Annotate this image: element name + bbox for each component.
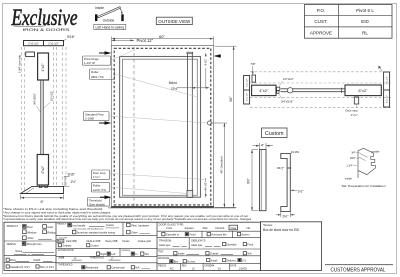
svg-text:REV: REV (182, 265, 187, 267)
svg-text:Screen: Screen (242, 233, 251, 236)
callout box: Pivot Hinge 1-1/2 (83, 56, 111, 65)
custom: 4 inch dim (253, 143, 274, 150)
svg-text:PACKAGE: PACKAGE (158, 257, 169, 260)
dimension pivot 12 inch (112, 38, 154, 43)
svg-text:3/4"x3/16": 3/4"x3/16" (281, 100, 293, 104)
svg-text:Door stop: Door stop (346, 109, 359, 113)
leader pivot hinge to pivot (111, 50, 134, 60)
svg-text:Other: Other (27, 236, 34, 240)
svg-text:2"x1-1/2": 2"x1-1/2" (386, 76, 388, 84)
svg-text:9/16": 9/16" (67, 35, 76, 39)
svg-text:Box de stock door for EID: Box de stock door for EID (263, 228, 300, 232)
door view: glass frame inner (122, 59, 197, 195)
svg-text:Clear: Clear (231, 227, 237, 230)
door view: pivot dashed line (133, 47, 135, 206)
svg-text:Slim (1 1/4"): Slim (1 1/4") (40, 265, 54, 269)
form: standard slim row (6, 265, 54, 269)
svg-text::: : (213, 244, 214, 247)
door view: backset label (169, 81, 179, 91)
svg-text:PRODUCT: PRODUCT (7, 226, 19, 228)
svg-text:Hurricane film: Hurricane film (211, 233, 226, 236)
door view: lock stile bar (187, 52, 193, 197)
form: COLOR section (57, 238, 151, 248)
svg-text:Commercial: Commercial (111, 267, 125, 270)
svg-text:ORDER#: ORDER# (205, 265, 215, 267)
svg-text:Antique gold: Antique gold (138, 240, 151, 243)
svg-text:Dark ORB: Dark ORB (66, 240, 77, 243)
svg-text:Custom: Custom (91, 245, 99, 248)
form: PACKAGE row (158, 257, 247, 263)
svg-text:outside: outside (371, 150, 380, 154)
form col1 dividers (4, 241, 56, 262)
svg-text:*Any change in your signed and: *Any change in your signed and send to (… (3, 211, 111, 214)
svg-text:with relevador and deadbolt pr: with relevador and deadbolt prep (73, 227, 104, 230)
svg-text:Right: Right (101, 253, 107, 256)
svg-text:HANDLE:: HANDLE: (57, 223, 67, 226)
svg-text:3/4"x3/16": 3/4"x3/16" (32, 93, 36, 105)
form: DOOR GLASS TYPE header and types (159, 222, 251, 230)
svg-text:ACTIVE DOOR: ACTIVE DOOR (58, 249, 74, 252)
dimension 66 inch right (215, 46, 237, 207)
svg-text:American standard double borin: American standard double boring (77, 230, 116, 234)
svg-text:4": 4" (261, 144, 265, 148)
custom: flat bar profile (260, 150, 267, 211)
plan view: label 1/2x1/2 (279, 77, 294, 87)
svg-text:SIDELIGHTS:: SIDELIGHTS: (191, 240, 206, 243)
door view: right top arrow (214, 54, 221, 58)
svg-text:Door: Door (27, 225, 33, 229)
fine print line 3 (3, 215, 248, 218)
plan view: hinge side lock bits (277, 87, 280, 93)
svg-text:Heavy ORB: Heavy ORB (105, 241, 118, 243)
svg-text:Pivot 6 L: Pivot 6 L (356, 8, 374, 13)
svg-text:3½": 3½" (283, 214, 290, 218)
svg-text:NA: NA (247, 227, 251, 230)
plan view: door stop rect (252, 75, 256, 82)
threshold isometric sketch (358, 148, 375, 178)
swing diagram: swing arrow (120, 9, 123, 15)
notes red text (263, 228, 300, 232)
svg-text:Gate: Gate (47, 225, 53, 229)
svg-text:2"x1-1/2": 2"x1-1/2" (386, 95, 388, 103)
svg-text:2": 2" (281, 167, 284, 171)
svg-text:KGWt: KGWt (33, 258, 40, 262)
door view: backset dimension (177, 87, 209, 89)
left jamb section: door stop small rect (26, 52, 35, 57)
svg-text:Aquatex: Aquatex (185, 227, 195, 230)
threshold iso: outside label (371, 150, 380, 154)
custom: #4-4SS label (290, 151, 299, 155)
svg-text:1½": 1½" (71, 180, 77, 184)
svg-text:Price: Price (10, 258, 16, 262)
svg-text:Medium ORB: Medium ORB (87, 241, 101, 243)
svg-text:EID: EID (361, 19, 369, 24)
svg-text:1-3/4" door slab: 1-3/4" door slab (17, 54, 21, 73)
form: JAMB row (58, 257, 120, 261)
left jamb section: tube feet (39, 185, 47, 188)
CUSTOMERS APPROVAL signature line (325, 265, 393, 274)
threshold iso: dim labels (346, 152, 359, 168)
svg-text:Outside: Outside (103, 18, 115, 22)
logo IRON AND DOORS (22, 28, 70, 32)
order form outer box (4, 222, 260, 270)
svg-text:*Exclusive Iron Doors stands b: *Exclusive Iron Doors stands behind the … (3, 215, 248, 218)
svg-text:*Size shown in FS in unit size: *Size shown in FS in unit size including… (3, 208, 104, 211)
left jamb section: rotated label door slab 1-3/4 (17, 54, 21, 73)
swing diagram: Left Hand In-swing box (94, 24, 126, 29)
svg-text:Roller: Roller (93, 183, 101, 187)
leader roller latch to stile base (110, 187, 188, 194)
svg-text:3/4": 3/4" (351, 152, 355, 155)
svg-text:6"x2": 6"x2" (358, 88, 368, 93)
svg-text:DESIGN:: DESIGN: (7, 244, 17, 246)
svg-text:Outside: Outside (210, 253, 219, 256)
svg-text:Operable or: Operable or (166, 233, 179, 236)
left jamb section: wall dashed lines left (22, 47, 25, 193)
svg-text:1"x¾": 1"x¾" (351, 113, 358, 117)
svg-text:No box: No box (187, 261, 196, 264)
left jamb section: 9/16 and 1-1/2 dims at threshold (64, 173, 76, 187)
fine print line 4 (3, 218, 252, 221)
svg-text:8-1/2": 8-1/2" (204, 59, 208, 66)
svg-text:JAMB: JAMB (58, 257, 65, 260)
title block table (305, 5, 393, 39)
custom: C channel profile (281, 153, 291, 211)
svg-text:OUTSIDE VIEW: OUTSIDE VIEW (158, 19, 190, 24)
form: glass options row (162, 233, 250, 237)
svg-text:IRON & DOORS: IRON & DOORS (22, 28, 70, 32)
door view: slab heavy dashed rect (114, 48, 211, 205)
svg-text:9/16": 9/16" (68, 173, 75, 177)
svg-text:Install: Install (211, 259, 218, 262)
svg-text:*Notes:: *Notes: (263, 223, 273, 227)
custom: 1-1/2 dim (291, 190, 304, 194)
svg-text:TRANSOM:: TRANSOM: (159, 240, 172, 243)
plan view: 6x2 jamb box (345, 85, 381, 96)
left jamb section: rotated label 3/16x3/4 (32, 93, 40, 112)
svg-text:2-1/8Ø: 2-1/8Ø (85, 117, 95, 121)
leader standard prep to circle (109, 116, 207, 123)
dimension 48 deadbolt (212, 123, 228, 207)
custom: 2 inch dim (276, 167, 291, 171)
svg-text:49-1/2": 49-1/2" (204, 182, 208, 190)
svg-text:8½": 8½" (246, 178, 250, 184)
dimension 60 inch top (112, 34, 214, 45)
custom: 3-1/2 dim (276, 212, 295, 218)
svg-text:1"x¾": 1"x¾" (93, 175, 101, 179)
svg-text:Frost: Frost (166, 227, 172, 230)
svg-text:Window: Window (27, 230, 36, 234)
form: HANDLE section (57, 223, 150, 235)
svg-text:Plexi, hardware: Plexi, hardware (131, 223, 149, 227)
hinge arrow middle (99, 121, 112, 125)
callout box: Door stop 1x3/4 (91, 170, 109, 179)
door view: floor line (108, 207, 236, 209)
callout box: Standard Prep 2-1/8 (84, 112, 110, 121)
left jamb section: 9/16 top label (63, 35, 76, 41)
svg-text:Black: Black (58, 241, 64, 243)
svg-text:Oxidants: Oxidants (62, 245, 72, 248)
form: DESIGN section (7, 242, 54, 256)
svg-text:66": 66" (229, 96, 233, 102)
svg-text:2801 (T4): 2801 (T4) (91, 75, 104, 79)
svg-text:Std. Preparation for Installat: Std. Preparation for Installation (342, 184, 386, 188)
svg-text:Latch (T4): Latch (T4) (93, 188, 106, 192)
logo Exclusive script (11, 5, 78, 30)
svg-text:Custom: Custom (265, 131, 284, 137)
svg-text:CUSTOMERS APPROVAL: CUSTOMERS APPROVAL (331, 267, 386, 273)
svg-text:Delivery: Delivery (227, 259, 237, 262)
swing diagram: left jamb post (95, 14, 97, 21)
plan view: wall dashed lines (250, 72, 392, 108)
form: SIDELIGHTS cell (191, 240, 254, 247)
svg-text:APPROVE: APPROVE (310, 31, 332, 36)
svg-text:DOOR GLASS TYPE:: DOOR GLASS TYPE: (159, 222, 185, 226)
svg-text:Fixed: Fixed (247, 243, 254, 246)
plan view: 4x2 jamb box (252, 85, 276, 95)
svg-text:Glass type: Glass type (159, 244, 171, 247)
custom: rotated 8-1/2 dim (246, 150, 258, 211)
svg-text:4"x2": 4"x2" (41, 63, 45, 72)
svg-text:Custom: Custom (106, 224, 114, 227)
left jamb section: head jamb double box 2x1-1/2 (24, 41, 64, 46)
svg-text:Left Hand In-swing: Left Hand In-swing (96, 25, 125, 29)
svg-text:LTL: LTL (242, 259, 247, 262)
svg-text:P.O.: P.O. (317, 8, 326, 13)
svg-text:1½": 1½" (298, 190, 305, 194)
plan view: arrow to head jamb (379, 66, 383, 72)
svg-text:7/8": 7/8" (250, 62, 255, 66)
door view: deadbolt circle (207, 121, 211, 125)
svg-text:Bckst.: Bckst. (169, 81, 178, 85)
notes box (260, 222, 321, 271)
svg-text:1/2"x1/2": 1/2"x1/2" (283, 77, 294, 81)
form: price row (6, 258, 52, 262)
svg-text:Railing: Railing (47, 230, 55, 234)
svg-text:THRESHOLD: THRESHOLD (90, 258, 105, 260)
form: THRESHOLD row (58, 264, 150, 269)
threshold arrow bottom (100, 195, 112, 199)
door view: glass frame outer (120, 57, 201, 198)
svg-text:Left: Left (111, 253, 115, 256)
fine print line 2 (3, 211, 111, 214)
svg-text:RL: RL (362, 31, 368, 36)
svg-text:10: 10 (192, 267, 195, 270)
door view: stile top mini dim 8-1/2 (204, 53, 208, 88)
svg-text:1/2"x1/2": 1/2"x1/2" (49, 91, 53, 101)
svg-text:KG: KG (170, 267, 174, 270)
svg-text:Residential: Residential (86, 267, 99, 270)
svg-text:1-1/2" Ø: 1-1/2" Ø (84, 61, 95, 65)
svg-text:TINT:: TINT: (158, 251, 164, 253)
svg-text:9/16": 9/16" (350, 157, 356, 160)
svg-text:61: 61 (218, 267, 221, 270)
svg-text:4"x2": 4"x2" (41, 165, 45, 174)
svg-text:Inside: Inside (178, 253, 185, 256)
svg-text::: : (180, 244, 181, 247)
left jamb section: 6 inch dimension (21, 195, 64, 205)
plan view: left head jamb rotated box (244, 76, 250, 105)
svg-text:1 1/4": 1 1/4" (346, 165, 352, 168)
leader door stop to door bottom (110, 174, 206, 180)
callout box: Roller latch T4 (91, 182, 109, 192)
svg-text:(SWING): (SWING) (121, 250, 130, 252)
form: TRANSOM cell (159, 240, 187, 247)
svg-text:2"x1-1/2": 2"x1-1/2" (48, 41, 59, 45)
form: TINT row (158, 251, 252, 255)
svg-text:Pivot 12": Pivot 12" (137, 38, 154, 43)
svg-text:4"x2": 4"x2" (259, 88, 269, 93)
OUTSIDE VIEW label box (156, 17, 192, 24)
plan view: label 3/4x3/16 (279, 94, 293, 104)
left jamb section: upper 4x2 tube (38, 53, 49, 80)
svg-text:Name: Name (15, 249, 22, 253)
svg-text:N/A: N/A (247, 253, 252, 256)
swing diagram: Outside label (103, 18, 115, 22)
svg-text:*representatives to verify you: *representatives to verify your situatio… (3, 218, 252, 221)
left jamb section: door slab section lines (41, 80, 43, 155)
door view: outer frame (111, 46, 213, 208)
form: weight date row (158, 264, 247, 270)
svg-text:(See details): (See details) (89, 202, 105, 206)
fine print line 1 (3, 208, 104, 211)
svg-text:2"x1-1/2": 2"x1-1/2" (28, 41, 39, 45)
svg-text:Fixed: Fixed (189, 233, 196, 236)
swing diagram: right jamb post (121, 14, 123, 21)
svg-text:1/14/25: 1/14/25 (239, 267, 248, 270)
plan view: right head jamb rotated box (384, 72, 390, 107)
plan view: door slab lines (281, 88, 346, 93)
left jamb section: wall dashed lines right (54, 47, 67, 186)
threshold iso: inside label (345, 177, 352, 181)
form col3 dividers (157, 231, 260, 270)
svg-text:Roller: Roller (91, 70, 99, 74)
form: PRODUCT section (7, 225, 56, 241)
svg-text:PESOS: PESOS (158, 265, 166, 267)
svg-text:Wrought Iron: Wrought Iron (27, 242, 43, 246)
swing diagram: Inside label (95, 6, 104, 10)
svg-text:N/A: N/A (135, 267, 140, 270)
callout box: Roller 2801 T4 (90, 69, 115, 80)
callout box: Threshold see details (87, 198, 109, 207)
svg-text:Operable: Operable (227, 243, 238, 246)
svg-text:2"x1-1/2": 2"x1-1/2" (246, 93, 248, 101)
svg-text:THRESHOLD: THRESHOLD (58, 264, 73, 266)
svg-text:Box: Box (174, 261, 179, 264)
swing diagram: open door slab (98, 7, 121, 18)
custom label box (262, 128, 288, 138)
svg-text:Inside: Inside (95, 6, 104, 10)
plan view: pivot circle (288, 88, 293, 93)
svg-text:Other: Other (131, 230, 138, 234)
plan view: right door stop label (346, 104, 359, 117)
svg-text:Out: Out (145, 253, 149, 256)
threshold iso: caption (342, 184, 386, 188)
svg-text:48" Deadbolt: 48" Deadbolt (220, 156, 224, 173)
svg-text:Pewter: Pewter (122, 240, 129, 243)
svg-text:Glass type: Glass type (191, 244, 203, 247)
svg-text:CUST.: CUST. (314, 19, 327, 24)
svg-text:6": 6" (41, 200, 45, 204)
svg-text:inside: inside (345, 177, 352, 181)
leader roller to door (115, 74, 198, 97)
svg-text:Exclusive: Exclusive (11, 5, 78, 30)
svg-text:#4-4SS: #4-4SS (291, 151, 299, 154)
form: ACTIVE DOOR row (58, 249, 149, 256)
svg-text:Flemish: Flemish (216, 227, 225, 230)
left jamb section: threshold wedge (21, 186, 64, 193)
svg-text:DATE: DATE (230, 264, 236, 267)
hinge arrow top (99, 51, 112, 55)
plan view: 7/8 dim (250, 62, 255, 75)
svg-text:In: In (135, 253, 138, 256)
svg-text:Rain: Rain (203, 227, 209, 230)
svg-text:2"x1-1/2": 2"x1-1/2" (246, 78, 248, 86)
door view: stile bottom mini dim 49-1/2 (204, 178, 208, 197)
left jamb section: rotated label 1/2x1/2 (44, 91, 53, 108)
left jamb section: lower 4x2 tube (37, 155, 48, 186)
form col2 dividers (56, 222, 157, 263)
svg-text:Iron handle: Iron handle (72, 223, 86, 227)
svg-text:60": 60" (159, 34, 165, 39)
svg-text:Standard (1 3/4"): Standard (1 3/4") (10, 265, 30, 269)
plan view: right door stop rect (354, 97, 358, 104)
svg-text:or: or (28, 253, 30, 256)
